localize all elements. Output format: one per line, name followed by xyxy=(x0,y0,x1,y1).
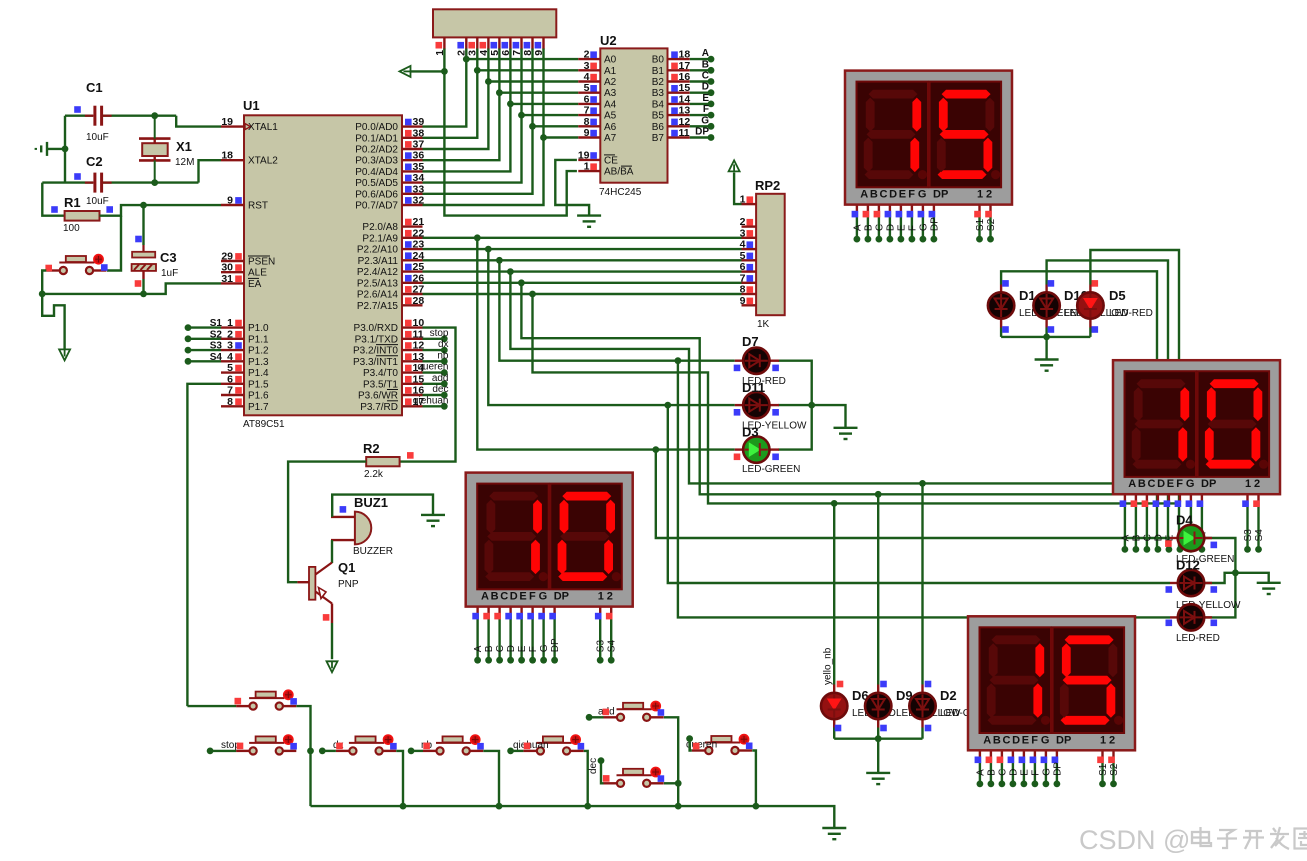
microcontroller U1 AT89C51 xyxy=(244,115,402,415)
svg-text:8: 8 xyxy=(584,116,590,128)
led D4 LED-GREEN xyxy=(1170,537,1178,539)
svg-text:13: 13 xyxy=(679,105,691,117)
RP2 pin stubs xyxy=(742,203,757,205)
display DISP-C dual 7seg 10 xyxy=(466,473,633,607)
wire CE to ground xyxy=(555,160,589,216)
svg-text:PSEN: PSEN xyxy=(248,257,275,268)
wire D12 right xyxy=(1205,573,1269,583)
svg-text:DP: DP xyxy=(933,189,948,201)
wire D5 top loop xyxy=(1090,250,1179,549)
wire add right down xyxy=(664,717,678,806)
svg-text:G: G xyxy=(539,644,550,652)
svg-text:DP: DP xyxy=(1056,734,1071,746)
wire connector pin1 to AB/BA xyxy=(444,49,577,216)
node dx wire end xyxy=(319,748,326,755)
wire C2 row xyxy=(65,181,93,183)
svg-text:P1.6: P1.6 xyxy=(248,391,269,402)
led D1 LED-GREEN xyxy=(1000,285,1002,294)
svg-text:S3: S3 xyxy=(596,640,607,653)
svg-text:21: 21 xyxy=(413,216,425,228)
wire crystal stems xyxy=(154,116,156,139)
terminal arrow down Q1 xyxy=(327,661,338,672)
svg-text:B0: B0 xyxy=(652,55,665,66)
wire D7 right xyxy=(778,361,811,450)
svg-text:2: 2 xyxy=(740,216,746,228)
wire Q1 collector down xyxy=(331,623,333,659)
svg-text:dec: dec xyxy=(588,758,599,774)
svg-text:F: F xyxy=(907,225,918,231)
svg-text:D: D xyxy=(1157,478,1165,490)
wires P2.1-P2.6 to RP2 with branch nodes xyxy=(423,237,742,239)
svg-text:XTAL1: XTAL1 xyxy=(248,122,278,133)
svg-text:P3.4/T0: P3.4/T0 xyxy=(363,368,398,379)
svg-text:P0.2/AD2: P0.2/AD2 xyxy=(355,145,398,156)
buzzer BUZ1 xyxy=(355,512,371,545)
led D6 LED-RED xyxy=(821,693,847,719)
wire stop vertical to bus xyxy=(309,751,311,806)
svg-text:D: D xyxy=(702,82,709,93)
wire zigzag to terminal xyxy=(42,294,64,350)
svg-text:AB/BA: AB/BA xyxy=(604,167,634,178)
svg-text:3: 3 xyxy=(584,60,590,72)
svg-text:19: 19 xyxy=(578,149,590,161)
U2 right pins B0-B7 with net labels xyxy=(668,58,690,60)
svg-text:A: A xyxy=(473,645,484,652)
node group1 ground junction xyxy=(1043,334,1050,341)
svg-text:C: C xyxy=(1003,734,1011,746)
svg-text:G: G xyxy=(918,189,927,201)
connector J1 xyxy=(433,9,556,37)
svg-text:5: 5 xyxy=(584,82,590,94)
svg-text:2: 2 xyxy=(986,189,992,201)
push button add xyxy=(604,716,618,718)
svg-text:D: D xyxy=(510,591,518,603)
svg-text:P2.3/A11: P2.3/A11 xyxy=(358,256,399,267)
svg-text:S1: S1 xyxy=(1098,763,1109,776)
wire qiehuan right to bus xyxy=(584,751,588,806)
wire branch P2.2 to LED D11 xyxy=(488,249,735,405)
svg-text:19: 19 xyxy=(221,116,233,128)
wire C1-C2 vertical xyxy=(64,116,66,183)
svg-text:X1: X1 xyxy=(176,139,192,154)
svg-text:100: 100 xyxy=(63,223,80,234)
node D11 branch xyxy=(664,402,671,409)
resistor R2 xyxy=(366,457,399,466)
svg-text:nb: nb xyxy=(437,350,449,361)
ground GND led group3 xyxy=(1257,582,1281,584)
wire to LED D9 xyxy=(877,494,879,684)
node D11-right junction xyxy=(808,402,815,409)
svg-text:P2.6/A14: P2.6/A14 xyxy=(357,290,399,301)
display DISP-A dual 7seg 15 xyxy=(845,71,1012,205)
svg-text:A: A xyxy=(852,224,863,231)
node queren wire end xyxy=(686,735,693,742)
svg-text:DP: DP xyxy=(929,217,940,231)
svg-text:A: A xyxy=(702,48,709,59)
svg-text:P3.7/RD: P3.7/RD xyxy=(360,402,398,413)
svg-text:D7: D7 xyxy=(742,334,759,349)
svg-text:B: B xyxy=(491,591,499,603)
svg-text:B: B xyxy=(702,59,709,70)
svg-text:B: B xyxy=(986,769,997,776)
svg-text:D: D xyxy=(1012,734,1020,746)
svg-text:G: G xyxy=(539,591,548,603)
svg-text:3: 3 xyxy=(227,340,233,352)
capacitor C3 xyxy=(142,245,144,252)
wire button A left xyxy=(187,705,236,707)
svg-text:E: E xyxy=(1019,769,1030,776)
svg-text:2: 2 xyxy=(607,591,613,603)
node dec-add junction xyxy=(675,780,682,787)
svg-text:A: A xyxy=(1128,478,1136,490)
wires P3.1-P3.7 net label ends xyxy=(423,338,445,340)
node D7 branch xyxy=(675,357,682,364)
display A pin squares nodes labels xyxy=(854,236,861,243)
svg-text:CSDN @: CSDN @ xyxy=(1079,825,1190,855)
svg-text:P2.0/A8: P2.0/A8 xyxy=(362,222,398,233)
svg-text:E: E xyxy=(702,93,709,104)
svg-text:S1: S1 xyxy=(975,218,986,231)
terminal arrow left xyxy=(400,66,411,77)
svg-text:C: C xyxy=(1142,534,1153,541)
wire bottom bus xyxy=(311,806,835,828)
display B pin squares nodes labels xyxy=(1122,546,1129,553)
push button RESET xyxy=(46,269,60,271)
svg-text:RP2: RP2 xyxy=(755,178,780,193)
svg-text:5: 5 xyxy=(227,362,233,374)
svg-text:E: E xyxy=(899,189,906,201)
svg-text:B: B xyxy=(1138,478,1146,490)
svg-text:A: A xyxy=(983,734,991,746)
svg-text:P3.3/INT1: P3.3/INT1 xyxy=(353,357,398,368)
svg-text:74HC245: 74HC245 xyxy=(599,187,642,198)
ground GND bottom bus xyxy=(822,827,846,829)
wire branch P2.6 down xyxy=(533,294,1181,503)
display DISP-D dual 7seg 15 xyxy=(968,616,1135,750)
ground GND led group2 xyxy=(834,427,858,429)
wire P1.5 to button A xyxy=(187,384,221,706)
svg-text:D: D xyxy=(885,224,896,231)
svg-text:U1: U1 xyxy=(243,98,260,113)
U2 left pins xyxy=(578,58,600,60)
svg-text:F: F xyxy=(1031,734,1038,746)
svg-text:E: E xyxy=(1022,734,1029,746)
svg-text:7: 7 xyxy=(584,105,590,117)
svg-text:2.2k: 2.2k xyxy=(364,469,384,480)
led D2 LED-GREEN xyxy=(909,693,935,719)
svg-text:B1: B1 xyxy=(652,66,665,77)
U1 left pin stubs and numbers xyxy=(221,125,244,127)
svg-text:LED-RED: LED-RED xyxy=(1109,308,1153,319)
node stop wire end xyxy=(207,748,214,755)
wire D10 top loop xyxy=(1047,260,1168,549)
connector J1 pin stubs xyxy=(443,37,445,49)
svg-text:R1: R1 xyxy=(64,195,81,210)
svg-text:1: 1 xyxy=(227,317,233,329)
wire R2 left to Q1 base xyxy=(288,462,366,583)
node qiehuan wire end xyxy=(507,748,514,755)
svg-text:4: 4 xyxy=(227,351,233,363)
svg-text:D: D xyxy=(1153,534,1164,541)
led D8 LED-RED right group xyxy=(1170,616,1178,618)
wire C2 to R1 xyxy=(42,183,64,216)
svg-text:dec: dec xyxy=(432,384,448,395)
ground GND buzzer xyxy=(421,514,445,516)
svg-text:BUZ1: BUZ1 xyxy=(354,495,388,510)
push button nb xyxy=(423,750,437,752)
svg-text:1: 1 xyxy=(584,161,590,173)
svg-text:1: 1 xyxy=(598,591,604,603)
wires display A pins xyxy=(856,205,858,213)
svg-text:9: 9 xyxy=(584,127,590,139)
svg-text:1: 1 xyxy=(977,189,983,201)
wire reset button right to R1 xyxy=(107,216,121,271)
svg-text:7: 7 xyxy=(227,385,233,397)
svg-text:16: 16 xyxy=(679,71,691,83)
svg-text:DP: DP xyxy=(554,591,569,603)
svg-text:P2.7/A15: P2.7/A15 xyxy=(357,301,399,312)
svg-text:30: 30 xyxy=(221,262,233,274)
wire bottom bus left xyxy=(42,283,221,294)
node bus-C3 xyxy=(140,291,147,298)
node group4 ground junction xyxy=(875,735,882,742)
svg-text:A7: A7 xyxy=(604,133,617,144)
svg-text:D12: D12 xyxy=(1176,558,1200,573)
node bus junctions xyxy=(400,803,407,810)
svg-text:P3.5/T1: P3.5/T1 xyxy=(363,379,398,390)
wire D11 right xyxy=(778,405,845,428)
node bottom LED D2 branch xyxy=(919,480,926,487)
svg-text:D4: D4 xyxy=(1176,513,1193,528)
led D12 LED-YELLOW xyxy=(1170,582,1178,584)
svg-text:10uF: 10uF xyxy=(86,132,109,143)
svg-text:D: D xyxy=(889,189,897,201)
svg-text:G: G xyxy=(1186,478,1195,490)
svg-text:12M: 12M xyxy=(175,157,194,168)
wire R1 to RST xyxy=(100,205,222,216)
svg-text:S4: S4 xyxy=(607,640,618,653)
svg-text:BUZZER: BUZZER xyxy=(353,546,393,557)
transistor Q1 PNP xyxy=(309,567,315,600)
nodes S1-S4 on P1.0-P1.3 xyxy=(188,326,221,328)
svg-text:Q1: Q1 xyxy=(338,560,355,575)
wire dx right to bus xyxy=(396,751,403,806)
node nb wire end xyxy=(408,748,415,755)
svg-text:B: B xyxy=(870,189,878,201)
svg-text:D11: D11 xyxy=(742,380,765,395)
svg-text:C: C xyxy=(880,189,888,201)
led D3 LED-GREEN xyxy=(735,448,744,450)
svg-text:P2.1/A9: P2.1/A9 xyxy=(362,233,398,244)
node RST-C3 junction xyxy=(140,202,147,209)
svg-text:28: 28 xyxy=(413,295,425,307)
svg-text:D2: D2 xyxy=(940,688,957,703)
svg-text:DP: DP xyxy=(1201,478,1216,490)
wire C1 row xyxy=(65,114,93,116)
svg-text:R2: R2 xyxy=(363,441,380,456)
wires connector pins to U2 A0-A7 xyxy=(466,58,578,60)
svg-text:P2.2/A10: P2.2/A10 xyxy=(357,245,399,256)
svg-text:2: 2 xyxy=(1109,734,1115,746)
svg-text:12: 12 xyxy=(679,116,691,128)
node bottom LED D9 branch xyxy=(875,491,882,498)
svg-text:S3: S3 xyxy=(210,341,223,352)
svg-text:F: F xyxy=(703,104,709,115)
svg-text:RST: RST xyxy=(248,201,268,212)
push button stop xyxy=(236,750,250,752)
power terminal up arrow xyxy=(729,160,740,171)
wire XTAL2 net xyxy=(199,160,222,182)
svg-text:15: 15 xyxy=(679,82,691,94)
svg-text:P0.4/AD4: P0.4/AD4 xyxy=(355,167,398,178)
svg-text:A1: A1 xyxy=(604,66,617,77)
wire button A right to stop row xyxy=(296,706,310,751)
node C2-X1 junction xyxy=(151,179,158,186)
svg-text:ALE: ALE xyxy=(248,268,267,279)
svg-text:E: E xyxy=(519,591,526,603)
svg-text:P1.7: P1.7 xyxy=(248,402,269,413)
svg-text:P0.1/AD1: P0.1/AD1 xyxy=(355,133,398,144)
svg-text:B7: B7 xyxy=(652,133,665,144)
svg-text:E: E xyxy=(896,224,907,231)
node group3 junction xyxy=(1232,569,1239,576)
U1 right pin stubs and numbers xyxy=(402,125,423,127)
svg-text:yello_nb: yello_nb xyxy=(823,647,834,685)
crystal X1 xyxy=(139,137,171,140)
svg-text:S2: S2 xyxy=(210,329,223,340)
wire BUZ1 top to ground xyxy=(332,495,433,517)
svg-text:C1: C1 xyxy=(86,80,103,95)
svg-text:A: A xyxy=(1120,534,1131,541)
wire RP2 pin1 to power xyxy=(734,173,741,205)
svg-text:F: F xyxy=(529,591,536,603)
display C pin squares nodes labels xyxy=(474,657,481,664)
svg-text:C: C xyxy=(495,645,506,652)
wire dec right xyxy=(664,782,678,784)
svg-text:B: B xyxy=(993,734,1001,746)
led D11 LED-YELLOW xyxy=(735,404,744,406)
svg-text:P3.1/TXD: P3.1/TXD xyxy=(355,334,398,345)
svg-text:DP: DP xyxy=(1052,762,1063,776)
svg-text:B: B xyxy=(484,645,495,652)
push button qiehuan xyxy=(523,750,537,752)
wire C3 to ground bus xyxy=(142,279,144,294)
svg-text:A3: A3 xyxy=(604,88,617,99)
svg-text:PNP: PNP xyxy=(338,579,359,590)
svg-text:4: 4 xyxy=(584,71,590,83)
display DISP-B dual 7seg 10 xyxy=(1113,360,1280,494)
svg-text:P2.5/A13: P2.5/A13 xyxy=(357,278,399,289)
svg-text:29: 29 xyxy=(221,251,233,263)
svg-text:A: A xyxy=(975,769,986,776)
svg-text:A4: A4 xyxy=(604,99,617,110)
svg-text:D: D xyxy=(1008,769,1019,776)
node C1-X1 junction xyxy=(151,112,158,119)
svg-text:S4: S4 xyxy=(1254,529,1265,542)
svg-text:A6: A6 xyxy=(604,122,617,133)
svg-text:E: E xyxy=(517,645,528,652)
svg-text:stop: stop xyxy=(430,328,449,339)
svg-text:D: D xyxy=(506,645,517,652)
svg-text:LED-GREEN: LED-GREEN xyxy=(742,464,800,475)
svg-text:EA: EA xyxy=(248,279,262,290)
buffer U2 74HC245 xyxy=(600,48,667,182)
ground GND under U2 xyxy=(577,214,601,216)
svg-text:11: 11 xyxy=(413,328,424,340)
terminal arrow down left xyxy=(59,349,70,360)
wire group4 bottoms xyxy=(833,719,835,728)
display D pin squares nodes labels xyxy=(977,781,984,788)
svg-text:CE: CE xyxy=(604,155,618,166)
svg-text:A2: A2 xyxy=(604,77,617,88)
svg-text:B6: B6 xyxy=(652,122,665,133)
node add wire end xyxy=(586,714,593,721)
svg-text:G: G xyxy=(701,115,709,126)
svg-text:P0.6/AD6: P0.6/AD6 xyxy=(355,189,398,200)
svg-text:6: 6 xyxy=(227,373,233,385)
svg-text:A: A xyxy=(481,591,489,603)
svg-text:C: C xyxy=(874,224,885,231)
svg-text:B5: B5 xyxy=(652,111,665,122)
wire RST to C3 xyxy=(142,205,144,245)
svg-text:D3: D3 xyxy=(742,425,759,440)
svg-text:1uF: 1uF xyxy=(161,268,178,279)
wires display C pins xyxy=(476,607,478,615)
svg-text:E: E xyxy=(1167,478,1174,490)
svg-text:P1.1: P1.1 xyxy=(248,334,269,345)
svg-text:P1.0: P1.0 xyxy=(248,323,269,334)
svg-text:G: G xyxy=(1041,734,1050,746)
wire D1 top loop xyxy=(1001,271,1157,549)
svg-text:LED-RED: LED-RED xyxy=(1176,633,1220,644)
wire XTAL1 to C1 net xyxy=(176,116,221,127)
wire D4 right xyxy=(1205,538,1235,617)
svg-text:1K: 1K xyxy=(757,319,770,330)
svg-text:dx: dx xyxy=(438,339,449,350)
wire to LED D6 yello_nb xyxy=(833,503,835,684)
svg-text:6: 6 xyxy=(584,93,590,105)
svg-text:C: C xyxy=(702,71,709,82)
svg-text:B: B xyxy=(1131,534,1142,541)
svg-text:DP: DP xyxy=(550,638,561,652)
svg-text:add: add xyxy=(432,373,449,384)
wires P0.0-P0.7 to connector pins 2-9 xyxy=(423,49,467,127)
svg-text:XTAL2: XTAL2 xyxy=(248,156,278,167)
node bus-button xyxy=(39,291,46,298)
wire branch P2.3 to LED D7 xyxy=(499,260,734,360)
svg-text:2: 2 xyxy=(584,49,590,61)
svg-text:U2: U2 xyxy=(600,33,617,48)
svg-text:F: F xyxy=(1176,478,1183,490)
svg-text:G: G xyxy=(1041,768,1052,776)
wire P3.0 to R2 xyxy=(400,328,456,462)
led D5 LED-RED xyxy=(1089,285,1091,294)
wire D11 pair to D12 xyxy=(668,405,1170,583)
svg-text:17: 17 xyxy=(679,60,691,72)
wires display B pins xyxy=(1124,494,1126,502)
svg-text:P2.4/A12: P2.4/A12 xyxy=(357,267,399,278)
ground GND led group1 xyxy=(1035,358,1059,360)
node dec wire end xyxy=(598,757,605,764)
svg-text:2: 2 xyxy=(1254,478,1260,490)
led D9 LED-YELLOW xyxy=(865,693,891,719)
wire to LED D2 xyxy=(921,483,923,684)
svg-text:18: 18 xyxy=(221,150,233,162)
wire nb right to bus xyxy=(483,751,499,806)
svg-text:C2: C2 xyxy=(86,154,103,169)
svg-text:P0.0/AD0: P0.0/AD0 xyxy=(355,122,398,133)
svg-text:queren: queren xyxy=(417,362,448,373)
